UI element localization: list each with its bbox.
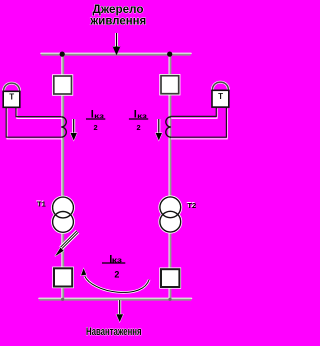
wire: left CT tap top (leg + horizontal): [16, 108, 62, 119]
breaker Q2 (top right box): [161, 76, 179, 94]
svg-text:кз: кз: [94, 114, 104, 120]
arrow: short-circuit fault (double-shaft diagonal): [55, 231, 78, 256]
node: junction dot right top: [167, 52, 172, 57]
arrow: left branch current flow down: [71, 119, 77, 141]
arrow: curved current path through tie: [81, 268, 149, 292]
wire: right CT tap bottom (leg + horizontal): [170, 108, 227, 139]
node: bottom bus (load busbar): [39, 298, 192, 299]
wire: source arrow down to top bus: [113, 33, 120, 55]
svg-text:2: 2: [94, 123, 98, 132]
breaker Q1 (top left box): [54, 76, 72, 94]
wire: left CT tap bottom (leg + horizontal): [6, 108, 62, 139]
current transformer winding right (two arcs on line): [166, 117, 171, 137]
breaker Q4 (bottom right box): [161, 269, 179, 287]
node: top bus (source busbar): [41, 53, 191, 54]
label T2: [187, 200, 197, 210]
svg-text:Т: Т: [218, 92, 223, 101]
node: junction dot right bottom: [168, 298, 171, 301]
svg-text:Джерело: Джерело: [93, 4, 144, 16]
label: Iкз/2 fraction right: [129, 108, 148, 132]
node: junction dot left top: [60, 52, 65, 57]
svg-text:Т1: Т1: [37, 199, 46, 208]
svg-text:Т2: Т2: [187, 201, 196, 210]
transformer T2 (two overlapping circles): [160, 197, 181, 232]
node: junction dot left bottom: [61, 298, 64, 301]
wire: right feeder vertical: [169, 54, 170, 299]
relay T left: box with arc and legs: [3, 83, 20, 107]
svg-text:2: 2: [136, 123, 140, 132]
arrow: load current down from bottom bus: [116, 300, 123, 322]
svg-text:Т: Т: [9, 92, 14, 101]
label T1: [36, 199, 46, 209]
label: Iкз/2 fraction bottom: [102, 253, 125, 279]
label: source text: [89, 4, 146, 27]
current transformer winding left (two arcs on line): [61, 117, 66, 137]
svg-text:Навантаження: Навантаження: [86, 326, 142, 338]
svg-text:кз: кз: [137, 114, 147, 120]
svg-text:живлення: живлення: [89, 16, 146, 28]
transformer T1 (two overlapping circles): [53, 197, 74, 232]
breaker Q3 (bottom left box): [54, 268, 72, 286]
wire: right CT tap top (leg + horizontal): [171, 108, 218, 119]
relay T right: box with arc and legs: [212, 82, 229, 107]
svg-text:кз: кз: [112, 258, 123, 265]
wire: left feeder vertical: [62, 54, 63, 299]
label: Iкз/2 fraction left: [86, 108, 105, 132]
arrow: right branch current flow down: [156, 119, 162, 141]
svg-text:2: 2: [114, 270, 119, 280]
